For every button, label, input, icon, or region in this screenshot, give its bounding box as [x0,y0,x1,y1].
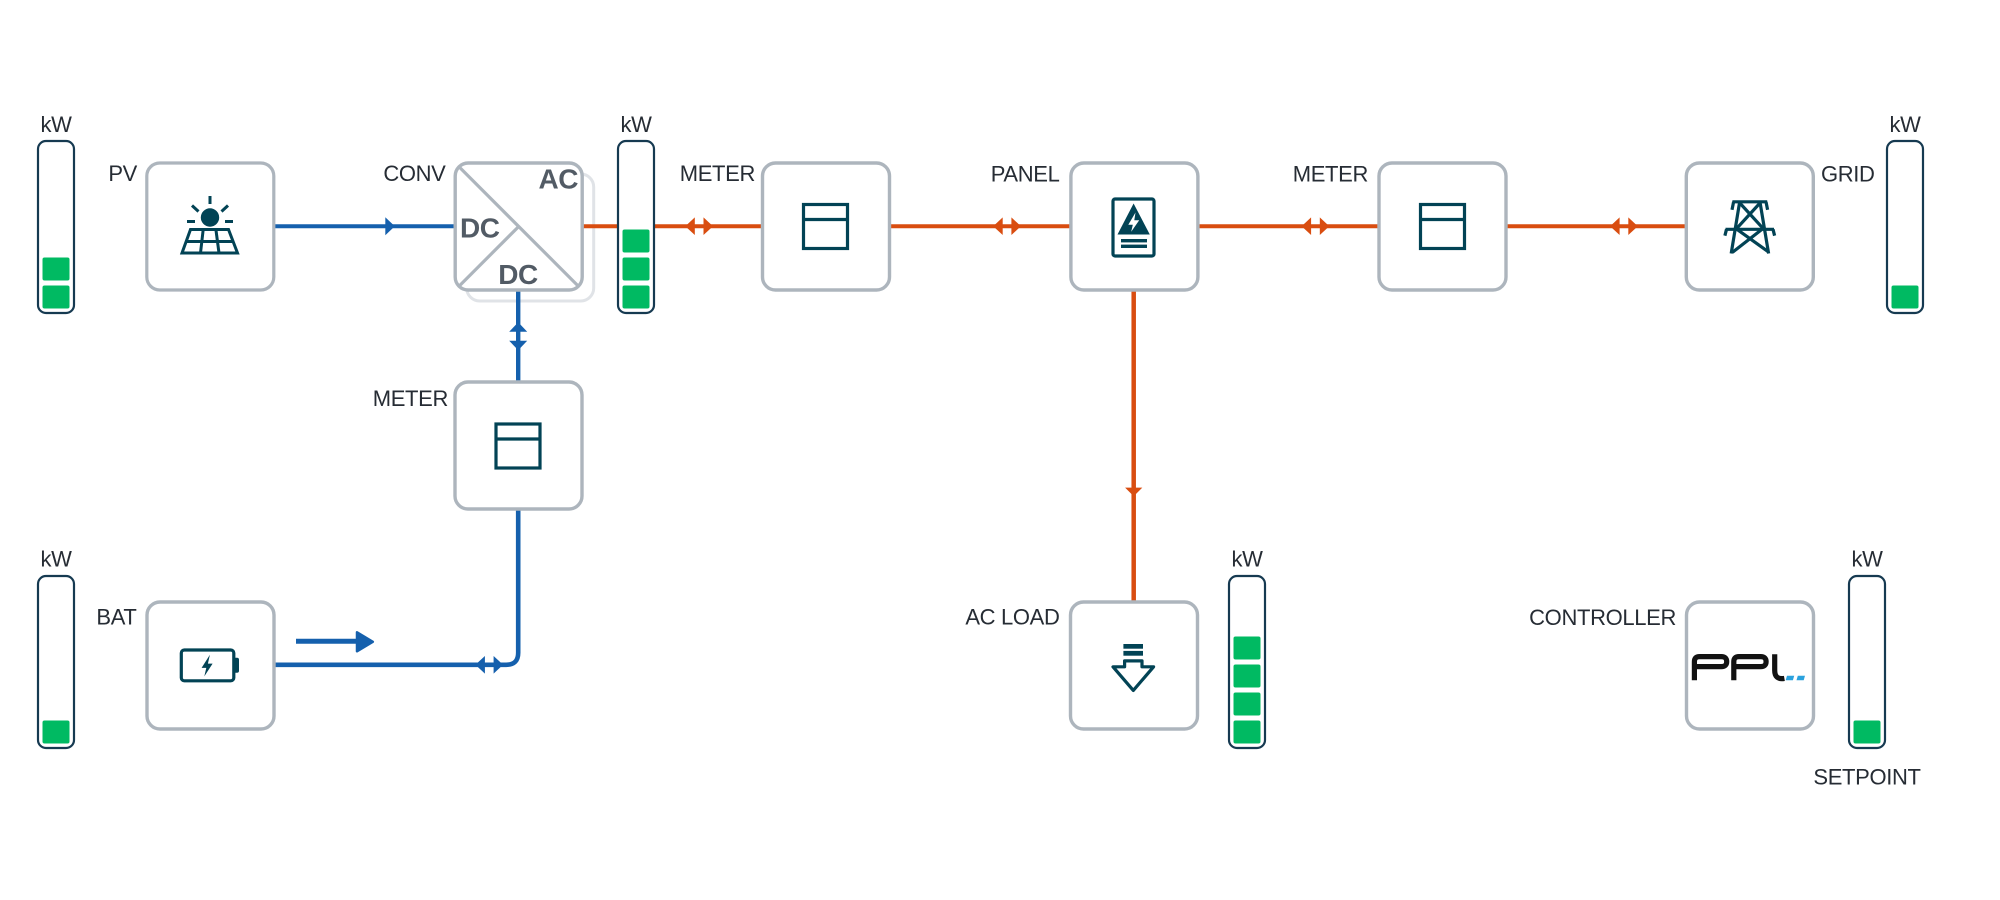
grid GRID box [1686,162,1874,291]
svg-text:METER: METER [680,161,755,186]
svg-text:CONV: CONV [383,161,446,186]
meter M2 box [1293,162,1506,291]
svg-text:BAT: BAT [96,605,136,630]
svg-text:kW: kW [620,112,652,137]
svg-text:CONTROLLER: CONTROLLER [1529,605,1676,630]
svg-text:AC LOAD: AC LOAD [965,605,1059,630]
panel PANEL box [991,162,1198,291]
converter CONV box [383,161,582,290]
icon PANEL warning document [1113,199,1154,256]
flow arrow BAT discharge (blue) [296,632,373,651]
icon GRID transmission tower [1725,202,1775,254]
svg-text:kW: kW [40,547,72,572]
svg-text:AC: AC [539,164,579,195]
wire PV to CONV (DC, blue) [275,217,455,235]
svg-text:kW: kW [1889,112,1921,137]
wire PANEL to AC LOAD (orange, vertical) [1125,291,1142,602]
svg-text:PV: PV [108,161,137,186]
meter M1 box [680,161,890,290]
svg-text:DC: DC [498,259,538,290]
logo PPL blue dashes [1786,676,1805,681]
gauge kW SETPOINT [1813,547,1920,790]
wire METER M3 to BAT (blue, corner) [275,510,518,674]
gauge kW CONV AC output [618,112,654,313]
svg-text:PANEL: PANEL [991,162,1060,187]
wire CONV to METER M1 (AC, orange) [583,217,761,235]
wire CONV to METER M3 (DC, blue, vertical) [509,290,527,384]
svg-text:GRID: GRID [1821,162,1875,187]
svg-text:METER: METER [373,386,448,411]
icon AC LOAD download arrow [1113,644,1154,690]
wire METER M1 to PANEL (orange) [890,217,1070,235]
AC load box [965,602,1197,729]
gauge kW GRID [1887,112,1923,313]
gauge kW PV [38,112,74,313]
svg-text:SETPOINT: SETPOINT [1813,765,1920,790]
wire PANEL to METER M2 (orange) [1198,217,1378,235]
logo PPL [1694,654,1784,680]
controller CONTROLLER box [1529,602,1813,729]
battery BAT box [96,602,274,729]
icon PV sun and panel [182,196,238,253]
svg-text:kW: kW [40,112,72,137]
svg-text:METER: METER [1293,162,1368,187]
icon BAT battery [181,650,239,681]
gauge kW BAT [38,547,74,749]
gauge kW AC LOAD [1229,547,1265,749]
svg-text:kW: kW [1851,547,1883,572]
converter CONV ghost box [467,174,594,301]
component PV box [108,161,273,290]
meter M3 box (DC meter) [373,382,582,509]
wire METER M2 to GRID (orange) [1506,217,1685,235]
svg-text:DC: DC [460,213,500,244]
svg-text:kW: kW [1231,547,1263,572]
